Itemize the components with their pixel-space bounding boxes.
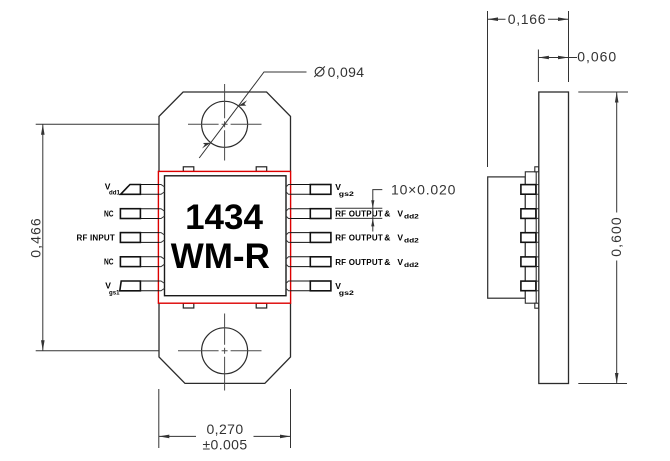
svg-text:V: V <box>397 233 403 243</box>
svg-text:0,466: 0,466 <box>28 217 44 258</box>
pins right side <box>286 185 331 291</box>
label RF OUTPUT row4 <box>335 257 419 269</box>
pin P6 lead <box>286 281 331 291</box>
svg-text:&: & <box>384 233 390 243</box>
pin P9 lead <box>286 209 331 219</box>
svg-text:0,094: 0,094 <box>328 64 365 80</box>
svg-text:dd2: dd2 <box>404 238 419 245</box>
svg-text:±0.005: ±0.005 <box>202 437 247 453</box>
pin P1 lead <box>121 185 165 195</box>
side view pins <box>521 185 536 291</box>
svg-text:V: V <box>397 209 403 219</box>
mounting hole H1 <box>202 101 248 147</box>
svg-text:WM-R: WM-R <box>171 237 270 276</box>
svg-text:dd2: dd2 <box>404 214 419 221</box>
svg-text:RF OUTPUT: RF OUTPUT <box>335 210 383 219</box>
svg-text:0,600: 0,600 <box>608 216 624 257</box>
side view pin stubs to flange <box>536 185 539 291</box>
svg-text:gs2: gs2 <box>339 191 354 198</box>
pin labels right <box>335 182 419 297</box>
lid tab bottom-left <box>183 303 194 308</box>
dimension 0,600 <box>578 92 628 384</box>
package outline top tab <box>159 92 291 172</box>
dimension hole diameter leader <box>199 72 306 158</box>
label RF OUTPUT row3 <box>335 233 419 245</box>
svg-text:&: & <box>384 257 390 267</box>
dimension 0,270 ±0.005 <box>159 389 291 448</box>
lid tab bottom-right <box>256 303 267 308</box>
dimension 0,466 <box>36 124 159 350</box>
side view tab bottom <box>535 303 539 308</box>
pin P5 lead <box>120 281 165 291</box>
svg-text:dd1: dd1 <box>109 190 120 197</box>
lid tab top-left <box>183 167 194 172</box>
svg-text:NC: NC <box>104 257 114 267</box>
svg-text:0,166: 0,166 <box>508 11 547 27</box>
package outline bottom tab <box>159 303 291 383</box>
centerline H1 vertical <box>224 84 226 161</box>
side view seal ring strip <box>525 172 536 303</box>
side view flange <box>539 92 569 384</box>
svg-text:RF INPUT: RF INPUT <box>77 233 116 242</box>
lid tab top-right <box>256 167 267 172</box>
svg-text:V: V <box>397 257 403 267</box>
svg-text:0,270: 0,270 <box>206 421 243 437</box>
svg-text:dd2: dd2 <box>404 262 419 269</box>
side view body <box>488 177 526 298</box>
pin P10 lead <box>286 185 331 195</box>
side view tab top <box>535 167 539 172</box>
svg-text:10×0.020: 10×0.020 <box>391 181 456 197</box>
pin P2 lead <box>120 209 164 219</box>
seal ring (red) <box>158 171 290 303</box>
svg-text:0,060: 0,060 <box>577 49 617 65</box>
pin labels left <box>77 182 121 297</box>
svg-text:NC: NC <box>104 208 114 218</box>
svg-text:&: & <box>384 209 390 219</box>
pin P4 lead <box>120 257 164 267</box>
part number text <box>171 198 270 276</box>
svg-text:gs1: gs1 <box>109 289 120 296</box>
pin P7 lead <box>286 257 331 267</box>
lid outline <box>165 176 287 296</box>
svg-text:gs2: gs2 <box>339 290 354 297</box>
pin P3 lead <box>120 233 164 243</box>
svg-text:RF OUTPUT: RF OUTPUT <box>335 258 383 267</box>
svg-text:RF OUTPUT: RF OUTPUT <box>335 234 383 243</box>
dimension 0,060 <box>538 50 577 83</box>
label RF OUTPUT row2 <box>335 209 419 221</box>
dimension 10x0.020 <box>335 190 382 232</box>
pin P8 lead <box>286 233 331 243</box>
mounting hole H2 <box>202 328 248 374</box>
centerline H1 horizontal <box>188 123 262 125</box>
svg-text:1434: 1434 <box>185 198 263 237</box>
centerline H2 horizontal <box>178 350 262 352</box>
dimension 0,166 <box>488 11 569 167</box>
centerline H2 vertical <box>224 314 226 391</box>
pins left side <box>120 185 165 291</box>
